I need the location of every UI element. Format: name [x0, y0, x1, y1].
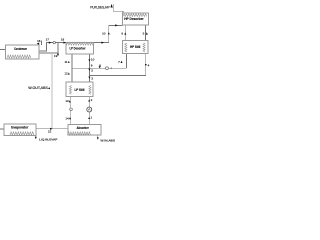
svg-text:13: 13 [65, 99, 69, 103]
svg-text:6: 6 [121, 32, 123, 36]
svg-text:2: 2 [91, 98, 93, 102]
svg-text:3: 3 [91, 77, 93, 81]
svg-text:10: 10 [102, 32, 106, 36]
svg-text:7: 7 [118, 60, 120, 64]
svg-text:3: 3 [91, 69, 93, 73]
svg-text:8: 8 [99, 63, 101, 67]
svg-text:LP Desorber: LP Desorber [70, 46, 86, 50]
svg-text:11: 11 [64, 60, 67, 64]
svg-text:LP Still: LP Still [75, 88, 85, 92]
svg-text:HP Desorber: HP Desorber [124, 17, 144, 21]
svg-text:LIQ.IN,EVAP: LIQ.IN,EVAP [39, 138, 57, 142]
svg-text:17: 17 [46, 38, 50, 42]
svg-text:16: 16 [37, 39, 41, 43]
svg-text:Evaporator: Evaporator [11, 126, 29, 130]
svg-text:W.IN,ABS: W.IN,ABS [100, 138, 115, 142]
svg-text:14: 14 [65, 116, 69, 120]
svg-text:12: 12 [64, 72, 68, 76]
svg-text:PUR,DES,HP: PUR,DES,HP [90, 5, 109, 9]
svg-text:18: 18 [61, 38, 65, 42]
svg-text:10: 10 [91, 57, 95, 61]
svg-text:5: 5 [143, 32, 145, 36]
svg-text:W.OUT,ABS: W.OUT,ABS [28, 86, 48, 90]
svg-text:1: 1 [90, 116, 92, 120]
svg-text:Condenser: Condenser [14, 47, 27, 51]
svg-text:4: 4 [148, 63, 150, 67]
svg-text:22: 22 [48, 129, 52, 133]
svg-text:9: 9 [91, 63, 93, 67]
svg-text:Absorber: Absorber [77, 126, 90, 130]
svg-text:HP Still: HP Still [130, 45, 140, 49]
svg-text:19: 19 [54, 54, 58, 58]
